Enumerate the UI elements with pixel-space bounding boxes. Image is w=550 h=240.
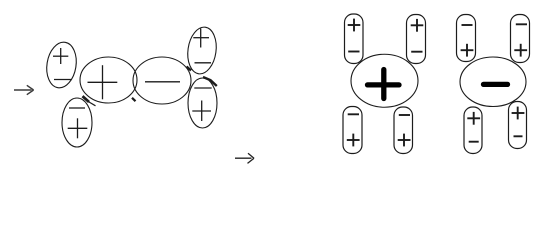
cation capsule bottom-right [394,107,413,154]
arrow left [14,85,34,94]
cation capsule top-left [345,14,364,64]
anion capsule top-left [457,15,476,62]
cation capsule top-right [407,15,426,64]
cation circle (+) [351,54,418,107]
junction nub between P and N [132,98,136,101]
cation big ellipse P [80,57,137,103]
anion capsule bottom-right [509,102,527,149]
anion capsule bottom-left [464,107,482,154]
anion big ellipse N [133,57,191,104]
dipole ellipse D (right small) [188,77,217,128]
anion circle (-) [460,57,526,107]
cation capsule bottom-left [343,107,362,154]
dipole ellipse B (bottom-left small) [62,96,96,147]
anion capsule top-right [511,15,530,63]
arrow middle [235,153,254,163]
dipole ellipse C (top-right small) [185,25,219,75]
dipole ellipse A (top-left small) [44,40,80,90]
